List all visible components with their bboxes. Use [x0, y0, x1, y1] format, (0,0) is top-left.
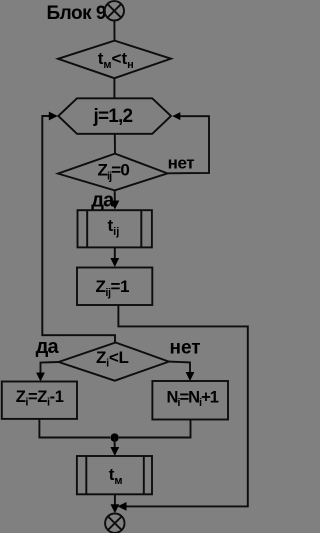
svg-text:Zij=0: Zij=0	[98, 161, 130, 183]
svg-text:Zi<L: Zi<L	[96, 348, 129, 370]
connector C1 (entry)	[105, 1, 124, 20]
wire dot to B5	[114, 438, 116, 449]
wire HEX bottom to D2 top	[114, 134, 116, 154]
label Zij=1	[96, 277, 129, 299]
wire да D2 to B1	[114, 190, 116, 201]
wire B4 exit to merge bar	[119, 420, 191, 438]
svg-text:j=1,2: j=1,2	[93, 106, 133, 127]
arrowhead into B1 top	[111, 201, 120, 210]
svg-text:нет: нет	[170, 338, 201, 359]
svg-text:Ni=Ni+1: Ni=Ni+1	[167, 388, 219, 409]
wire нет loop from D2 right vertex up to HEX right vertex	[168, 116, 210, 173]
wire D1 to HEX	[113, 78, 115, 98]
predefined process B1 tij	[78, 210, 152, 247]
decision D2 Zij=0	[58, 154, 168, 191]
arrowhead into B5 top	[110, 447, 119, 456]
wire B2 exit via right rail down to bottom pipe	[118, 305, 247, 506]
process B4 Ni=Ni+1	[152, 381, 228, 420]
left rail from corner down to D3 top	[42, 116, 115, 343]
wire B1 to B2	[114, 247, 116, 258]
predefined process B5 tм	[77, 456, 152, 494]
decision D1 tм&lt;tн	[58, 41, 171, 79]
process B2 Zij=1	[77, 268, 152, 306]
svg-text:Zij=1: Zij=1	[96, 277, 129, 299]
svg-text:да: да	[36, 336, 60, 358]
wire да branch to B3	[41, 362, 59, 373]
label tij	[108, 216, 120, 238]
label D1 tм&lt;tн	[98, 49, 134, 71]
wire нет branch to B4	[169, 362, 190, 373]
label Zi=Zi-1	[16, 388, 64, 409]
connector C2 (exit)	[105, 514, 124, 533]
svg-text:нет: нет	[168, 154, 195, 173]
label Ni=Ni+1	[167, 388, 219, 409]
svg-text:Zi=Zi-1: Zi=Zi-1	[16, 388, 64, 409]
wire B5 to C2	[114, 494, 116, 506]
svg-text:да: да	[91, 189, 115, 211]
arrowhead into bottom pipe (pointing left)	[118, 502, 127, 511]
preparation HEX j=1,2	[58, 98, 171, 134]
arrowhead into B4 top	[186, 372, 195, 381]
process B3 Zi=Zi-1	[2, 382, 77, 419]
label tм	[109, 465, 123, 487]
arrowhead into HEX left vertex	[49, 112, 58, 121]
arrowhead into B2 top	[110, 258, 119, 267]
label Zij=0	[98, 161, 130, 183]
svg-text:Блок 9: Блок 9	[47, 3, 106, 24]
arrowhead into B3 top	[36, 373, 45, 382]
decision D3 Zi<L	[59, 343, 169, 381]
wire B3 exit to merge bar	[39, 419, 110, 438]
junction dot	[110, 433, 118, 441]
arrowhead into C2 top	[111, 504, 120, 513]
wire C1 to D1	[113, 21, 115, 41]
label Zi<L	[96, 348, 129, 370]
arrowhead into HEX right vertex	[172, 112, 180, 120]
